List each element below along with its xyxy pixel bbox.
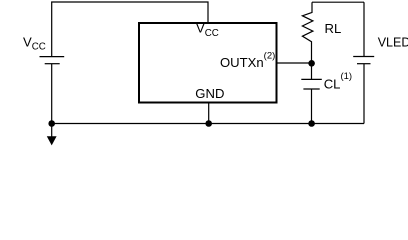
svg-text:GND: GND <box>195 86 224 101</box>
svg-text:RL: RL <box>325 21 342 36</box>
svg-text:OUTXn(2): OUTXn(2) <box>220 50 275 70</box>
svg-text:VLED: VLED <box>378 36 408 50</box>
svg-text:CL(1): CL(1) <box>324 71 352 92</box>
svg-text:VCC: VCC <box>23 34 46 52</box>
